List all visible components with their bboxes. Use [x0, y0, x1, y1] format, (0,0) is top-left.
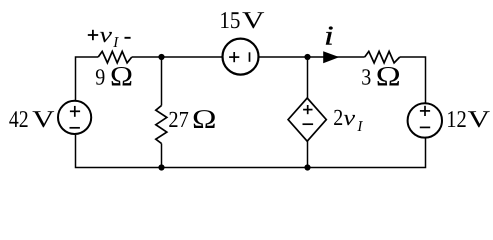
node D (bottom right junction) — [304, 164, 310, 170]
label 12V — [446, 107, 491, 133]
resistor 9Ω — [98, 51, 132, 63]
svg-text:9: 9 — [95, 65, 105, 90]
svg-text:27: 27 — [168, 107, 188, 132]
label 27Ω — [168, 104, 216, 134]
dependent source branch lower wire — [307, 141, 309, 168]
svg-text:I: I — [356, 119, 363, 135]
resistor 3Ω — [365, 51, 400, 63]
voltage source 42V — [58, 101, 91, 134]
voltage source 12V — [408, 103, 442, 137]
resistor 27Ω — [156, 106, 167, 144]
15V plus sign — [229, 52, 239, 62]
wire middle branch upper — [161, 57, 163, 106]
svg-text:V: V — [32, 107, 55, 133]
12V plus sign — [420, 106, 430, 116]
svg-text:V: V — [242, 8, 265, 34]
label 15V — [219, 8, 265, 34]
svg-text:2: 2 — [333, 105, 343, 130]
wire top-left corner — [76, 57, 99, 100]
svg-text:V: V — [468, 107, 491, 133]
node C (top right junction) — [304, 54, 310, 60]
wire top right of 15V — [259, 56, 365, 58]
svg-text:42: 42 — [9, 107, 29, 133]
svg-text:15: 15 — [219, 8, 240, 34]
svg-text:Ω: Ω — [110, 62, 133, 93]
wire top middle — [132, 56, 222, 58]
svg-text:Ω: Ω — [192, 104, 217, 134]
node B (bottom middle junction) — [158, 164, 164, 170]
svg-text:I: I — [112, 35, 119, 51]
current arrow i — [323, 51, 339, 63]
svg-text:v: v — [99, 22, 112, 47]
svg-text:v: v — [343, 105, 355, 130]
wire middle branch lower — [161, 144, 163, 168]
node A (top junction) — [158, 54, 164, 60]
42V minus sign — [70, 127, 80, 129]
svg-text:Ω: Ω — [376, 62, 401, 93]
svg-text:i: i — [324, 21, 334, 51]
svg-text:12: 12 — [446, 107, 467, 133]
diamond minus sign — [303, 123, 314, 125]
12V minus sign — [420, 126, 430, 128]
wire top right corner — [400, 57, 426, 103]
label 42V — [9, 107, 55, 133]
42V plus sign — [70, 106, 80, 117]
dependent source branch upper wire — [307, 57, 309, 99]
label 3Ω — [361, 62, 401, 93]
voltage source 15V — [223, 39, 259, 75]
label +vI- — [88, 22, 131, 51]
diamond plus sign — [303, 105, 312, 114]
15V minus bar — [249, 52, 251, 62]
label 9Ω — [95, 62, 133, 93]
label 2vI — [333, 105, 363, 135]
svg-text:3: 3 — [361, 65, 371, 90]
dependent source 2vI (diamond) — [288, 98, 326, 141]
wire bottom — [76, 135, 426, 168]
